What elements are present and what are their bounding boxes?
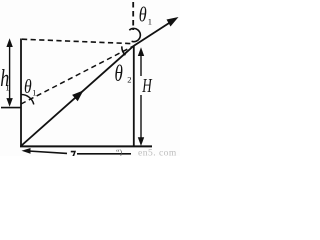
outgoing arrow beyond vertex [134,21,174,47]
outgoing arrowhead [167,17,179,27]
H dimension bottom arrowhead [138,137,144,146]
svg-text:2: 2 [127,75,131,85]
dashed vertical line above vertex [132,2,134,30]
svg-text:1: 1 [5,83,9,93]
svg-text:1: 1 [32,88,36,98]
bottom label fragment (cut) [71,151,76,156]
angle theta2 arc [122,46,126,55]
h dimension top arrowhead [6,38,12,47]
svg-text:en5. com: en5. com [138,149,177,157]
h dimension line [9,41,11,104]
svg-text:θ: θ [139,4,147,27]
incoming ray (trajectory) [22,46,134,146]
mid arrowhead on trajectory [72,90,83,101]
angle theta1 left arc [21,95,34,105]
bottom dimension line left segment [29,151,68,153]
svg-text:θ: θ [115,62,123,87]
svg-text:“): “) [116,148,123,156]
H dimension line upper [140,50,142,76]
right wall (vertical line under vertex) [133,46,135,148]
H dimension top arrowhead [138,47,144,56]
left pole (vertical line) [20,39,22,148]
bottom dimension line right segment [77,153,131,155]
eye-level tick [1,107,21,109]
top dashed horizontal line [22,39,132,43]
dashed sight line from eye to wall top [21,46,134,104]
ground / base line [20,145,152,147]
h dimension bottom arrowhead [6,98,12,107]
svg-text:θ: θ [24,75,32,97]
svg-text:1: 1 [148,17,152,27]
H dimension line lower [140,95,142,143]
bottom dimension left arrowhead [22,148,31,154]
angle theta1 top loop arc [129,28,140,41]
svg-text:H: H [142,74,153,96]
